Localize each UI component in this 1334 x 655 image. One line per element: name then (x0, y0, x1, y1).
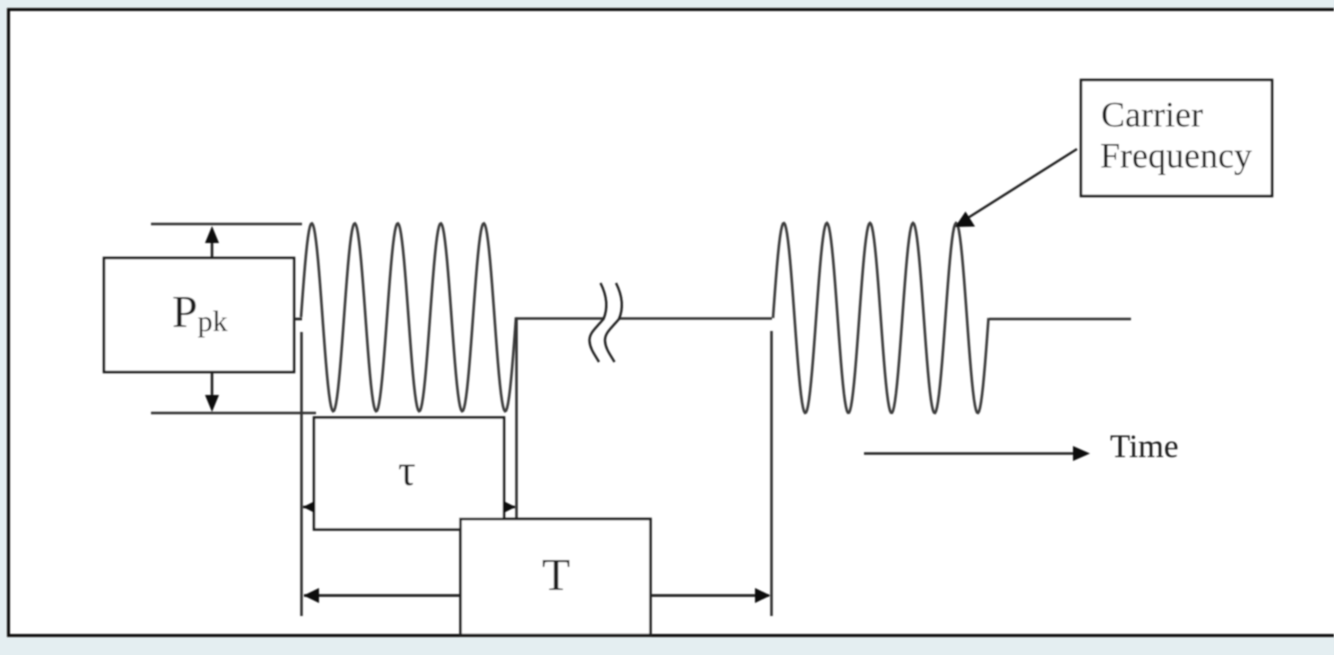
Carrier Frequency box (1081, 80, 1272, 196)
frame bottom border (7, 634, 1334, 637)
tau box (314, 418, 504, 530)
sine burst 2 (773, 223, 989, 413)
midline segment after break (619, 317, 772, 320)
svg-text:T: T (542, 549, 570, 600)
Ppk down arrow shaft (211, 372, 214, 396)
midline stub from Ppk box to pulse start (294, 318, 302, 321)
break squiggle left (589, 283, 606, 362)
right measurement vertical line (770, 331, 773, 616)
midline segment before break (516, 317, 603, 320)
T arrow right segment (651, 594, 769, 597)
Time axis arrowhead (1073, 446, 1090, 461)
T arrow left segment (304, 594, 460, 597)
mid-level drop line after burst 1 (515, 318, 518, 519)
break squiggle right (605, 283, 622, 362)
T arrow right head (755, 588, 771, 603)
Time axis arrow line (864, 452, 1077, 455)
tau arrow left head (303, 501, 315, 513)
tau arrow right segment (504, 506, 515, 509)
tau arrow left segment (303, 506, 314, 509)
Carrier Frequency callout arrow line (963, 149, 1077, 221)
svg-text:τ: τ (398, 446, 416, 495)
T box (461, 519, 651, 635)
Ppk up arrow shaft (211, 242, 214, 258)
tau arrow right head (504, 501, 516, 513)
sine burst 1 (301, 223, 516, 411)
Ppk down arrowhead (205, 395, 219, 412)
svg-text:Carrier: Carrier (1101, 95, 1203, 135)
midline after burst 2 (989, 318, 1131, 321)
Carrier Frequency callout arrowhead (955, 212, 975, 228)
T arrow left head (304, 588, 320, 603)
frame left border (7, 8, 10, 637)
svg-text:Frequency: Frequency (1100, 136, 1252, 176)
frame top border (7, 8, 1334, 11)
Ppk box (104, 258, 294, 372)
peak-level reference line (151, 223, 302, 226)
Ppk up arrowhead (205, 226, 219, 243)
trough-level baseline (151, 412, 316, 415)
left measurement vertical line (300, 332, 303, 616)
svg-text:Time: Time (1110, 429, 1178, 465)
